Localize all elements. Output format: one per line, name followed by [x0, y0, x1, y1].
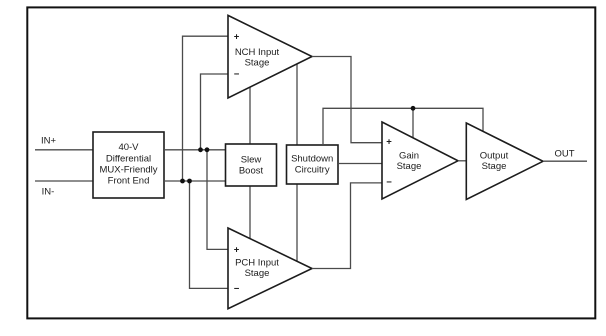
svg-text:NCH Input: NCH Input [235, 47, 280, 58]
op-amp NCH Input Stage [228, 15, 312, 98]
wire front end to slew boost top [164, 149, 226, 151]
svg-text:MUX-Friendly: MUX-Friendly [99, 164, 157, 175]
wire IN+ to front end [35, 149, 93, 151]
svg-text:Shutdown: Shutdown [291, 153, 333, 164]
svg-text:Stage: Stage [397, 161, 422, 172]
wire NCH to shutdown circuitry [296, 64, 298, 145]
svg-text:Circuitry: Circuitry [295, 165, 330, 176]
wire NCH output to gain + input [312, 57, 382, 143]
op-amp PCH Input Stage [228, 228, 312, 309]
pin IN- [42, 187, 55, 198]
svg-text:Stage: Stage [245, 58, 270, 69]
pin OUT [554, 149, 574, 160]
wire NCH - input [201, 74, 229, 150]
wire NCH to slew boost [249, 87, 251, 144]
svg-text:+: + [234, 245, 240, 256]
svg-text:Output: Output [480, 150, 509, 161]
block Shutdown Circuitry [287, 145, 339, 184]
svg-text:OUT: OUT [554, 149, 574, 160]
pin IN+ [41, 136, 57, 147]
svg-text:−: − [234, 284, 240, 295]
junction dot on bottom wire at x=182.5 [180, 179, 185, 184]
wire shutdown control to gain and output stages [323, 108, 483, 145]
wire NCH + input [183, 36, 229, 181]
svg-text:Differential: Differential [106, 153, 151, 164]
svg-text:IN+: IN+ [41, 136, 57, 147]
svg-text:−: − [234, 69, 240, 80]
wire OUT [543, 160, 587, 162]
svg-text:−: − [386, 177, 392, 188]
svg-text:+: + [386, 137, 392, 148]
svg-text:Boost: Boost [239, 166, 264, 177]
wire PCH - input [190, 181, 229, 288]
svg-text:PCH Input: PCH Input [235, 258, 279, 269]
svg-text:Front End: Front End [108, 176, 150, 187]
svg-text:Slew: Slew [241, 155, 262, 166]
op-amp Output Stage [466, 123, 543, 200]
svg-text:IN-: IN- [42, 187, 55, 198]
wire PCH + input [207, 150, 228, 250]
junction dot on control wire at x=413 [411, 106, 416, 111]
block: 40-V Differential MUX-Friendly Front End [93, 132, 164, 198]
svg-text:Stage: Stage [482, 161, 507, 172]
block Slew Boost [226, 144, 277, 186]
svg-text:Stage: Stage [245, 268, 270, 279]
svg-text:Gain: Gain [399, 150, 419, 161]
op-amp Gain Stage [382, 122, 458, 199]
junction dot on top wire at x=207 [205, 147, 210, 152]
wire IN- to front end [35, 180, 93, 182]
wire shutdown circuitry to PCH [296, 184, 298, 261]
svg-text:+: + [234, 31, 240, 42]
junction dot on bottom wire at x=189.5 [187, 179, 192, 184]
junction dot on top wire at x=200.5 [198, 147, 203, 152]
svg-text:40-V: 40-V [118, 142, 139, 153]
wire PCH output to gain - input [312, 183, 382, 269]
wire front end to slew boost bottom [164, 180, 226, 182]
wire shutdown circuitry to gain stage middle input [338, 163, 382, 165]
wire gain stage to output stage [458, 160, 466, 162]
wire slew boost to PCH [249, 186, 251, 239]
